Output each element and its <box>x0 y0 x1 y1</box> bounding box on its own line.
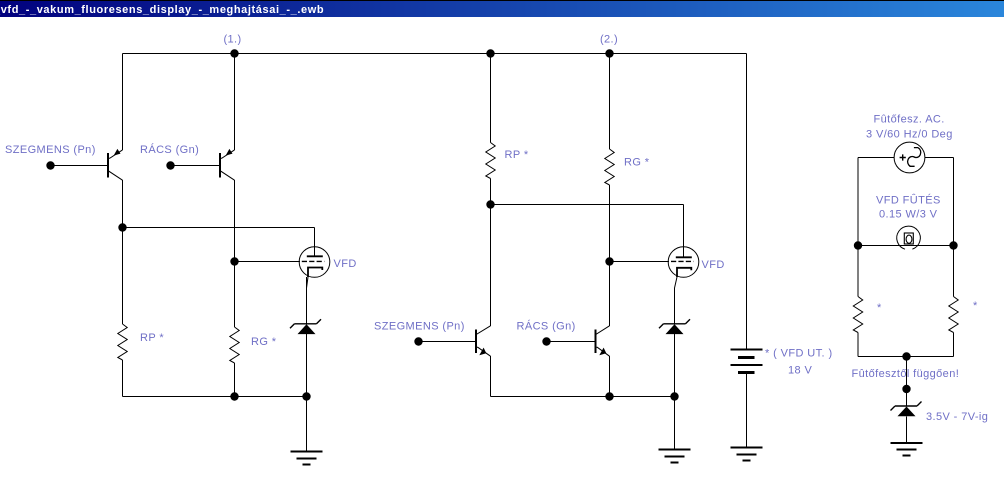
wire right heater branch down <box>953 158 955 246</box>
wire RG1 to bottom rail <box>234 363 236 397</box>
wire T4 base <box>547 341 596 343</box>
svg-text:RP *: RP * <box>140 332 164 344</box>
wire heater resistor RH1 top <box>857 246 859 297</box>
svg-text:(1.): (1.) <box>223 34 241 46</box>
junction bottom RG1 <box>230 392 238 400</box>
transistor Q3 SZEGMENS (NPN) <box>476 326 491 356</box>
junction rail-RG2 <box>605 49 613 57</box>
wire T2 emitter to rail <box>234 54 236 151</box>
VFD tube V2 <box>668 247 699 324</box>
terminal SZEGMENS1 <box>46 161 54 169</box>
svg-text:* ( VFD UT. ): * ( VFD UT. ) <box>765 348 833 360</box>
wire AC source left lead <box>858 157 894 159</box>
wire RP2 node to T3 collector <box>490 205 492 327</box>
wire RH2 bottom <box>953 333 955 357</box>
transistor Q1 SZEGMENS (PNP) <box>108 149 123 180</box>
resistor RP1 <box>118 324 127 360</box>
wire heater mid to zener node <box>906 357 908 390</box>
wire bottom rail circuit1 <box>123 396 307 398</box>
svg-text:(2.): (2.) <box>600 34 618 46</box>
junction bottom Q4 <box>605 392 613 400</box>
zener diode D1 <box>290 277 321 334</box>
wire zener D4 top lead <box>906 389 908 406</box>
junction bottom D2 <box>670 392 678 400</box>
junction node2 <box>230 257 238 265</box>
svg-text:_vfd_-_vakum_fluoresens_displa: _vfd_-_vakum_fluoresens_display_-_meghaj… <box>0 4 324 16</box>
wire heater bottom rail <box>858 356 954 358</box>
transistor Q2 RACS (PNP) <box>220 149 235 180</box>
wire RG2 down crossing <box>609 185 611 262</box>
svg-text:3.5V - 7V-ig: 3.5V - 7V-ig <box>926 411 988 423</box>
junction heater right <box>949 241 957 249</box>
terminal SZEGMENS2 <box>414 337 422 345</box>
junction RG2 node <box>605 257 613 265</box>
svg-text:RÁCS (Gn): RÁCS (Gn) <box>140 143 199 156</box>
resistor RG1 <box>230 327 239 363</box>
wire T1 base <box>51 165 108 167</box>
wire T2 base <box>171 165 220 167</box>
svg-text:*: * <box>877 302 882 314</box>
AC source V3 <box>894 142 925 173</box>
wire AC source right lead <box>925 157 954 159</box>
svg-text:*: * <box>973 300 978 312</box>
wire node to VFD2 grid <box>610 261 670 263</box>
wire node2 to VFD1 grid <box>235 261 301 263</box>
wire T2 collector lead <box>234 180 236 262</box>
junction RP2 node <box>486 200 494 208</box>
title bar <box>0 0 1004 17</box>
wire node1 down to RP1 <box>122 228 124 325</box>
wire rail to battery <box>746 54 748 350</box>
resistor RH1 heater <box>853 297 862 333</box>
wire RH1 bottom <box>857 333 859 357</box>
junction heater left <box>854 241 862 249</box>
svg-text:RG *: RG * <box>251 336 277 348</box>
svg-text:VFD FÛTÉS: VFD FÛTÉS <box>876 194 941 207</box>
transistor Q4 RACS (NPN) <box>595 326 610 356</box>
wire node to T4 collector <box>609 262 611 327</box>
wire T3 base <box>419 341 476 343</box>
VFD tube V1 <box>299 247 330 324</box>
wire left heater branch down <box>857 158 859 246</box>
junction node1 <box>118 223 126 231</box>
lamp L1 VFD FUTES <box>858 226 954 249</box>
resistor RH2 heater <box>949 297 958 333</box>
junction rail-RP2 <box>486 49 494 57</box>
resistor RP2 <box>486 143 495 179</box>
wire rail to RP2 <box>490 54 492 143</box>
svg-text:SZEGMENS (Pn): SZEGMENS (Pn) <box>374 321 465 333</box>
wire rail to RG2 <box>609 54 611 150</box>
zener diode D2 <box>659 319 690 334</box>
wire T3 emitter to bottom rail <box>490 356 492 397</box>
wire RP1 to bottom rail <box>122 360 124 397</box>
wire T1 collector lead <box>122 180 124 228</box>
wire T4 emitter to bottom rail <box>609 356 611 397</box>
wire node2 down to RG1 <box>234 262 236 328</box>
svg-text:18 V: 18 V <box>788 365 812 377</box>
wire zener D2 lead <box>674 334 676 397</box>
svg-text:Fûtőfesztől függően!: Fûtőfesztől függően! <box>852 368 960 380</box>
wire RP2 bottom lead <box>490 179 492 205</box>
svg-text:0.15 W/3 V: 0.15 W/3 V <box>879 209 938 221</box>
svg-text:RP *: RP * <box>505 149 529 161</box>
svg-text:RG *: RG * <box>624 157 650 169</box>
svg-text:3 V/60 Hz/0 Deg: 3 V/60 Hz/0 Deg <box>866 129 953 141</box>
ground G1 <box>291 452 323 465</box>
svg-text:VFD: VFD <box>334 258 357 270</box>
wire zener D1 lead <box>306 334 308 397</box>
wire RP2 node to VFD2 anode <box>491 205 684 258</box>
battery B1 VFD UT. 18V <box>731 350 763 373</box>
svg-text:SZEGMENS (Pn): SZEGMENS (Pn) <box>5 144 96 156</box>
ground G4 <box>891 443 923 456</box>
wires group <box>51 54 954 452</box>
ground G2 <box>659 450 691 463</box>
wire node1 to VFD1 anode <box>123 228 315 257</box>
wire D2 node to ground <box>674 397 676 450</box>
terminal RACS2 <box>542 337 550 345</box>
wire bottom rail circuit2 <box>491 396 675 398</box>
junction bottom D1 <box>302 392 310 400</box>
junction zener D4 node <box>902 385 910 393</box>
wire heater resistor RH2 top <box>953 246 955 297</box>
wire zener D4 to ground <box>906 417 908 444</box>
terminal RACS1 <box>166 161 174 169</box>
wire top rail <box>123 53 747 55</box>
svg-text:RÁCS (Gn): RÁCS (Gn) <box>517 320 576 333</box>
zener diode D4 <box>891 402 922 417</box>
svg-text:VFD: VFD <box>702 259 725 271</box>
wire T1 emitter to rail <box>122 54 124 151</box>
junction heater bottom mid <box>902 352 910 360</box>
svg-text:Fûtőfesz. AC.: Fûtőfesz. AC. <box>874 114 945 126</box>
wire battery to ground <box>746 373 748 448</box>
ground G3 <box>731 448 763 461</box>
wire zener D1 to ground <box>306 397 308 452</box>
resistor RG2 <box>605 149 614 185</box>
junction rail-Q2 <box>230 49 238 57</box>
